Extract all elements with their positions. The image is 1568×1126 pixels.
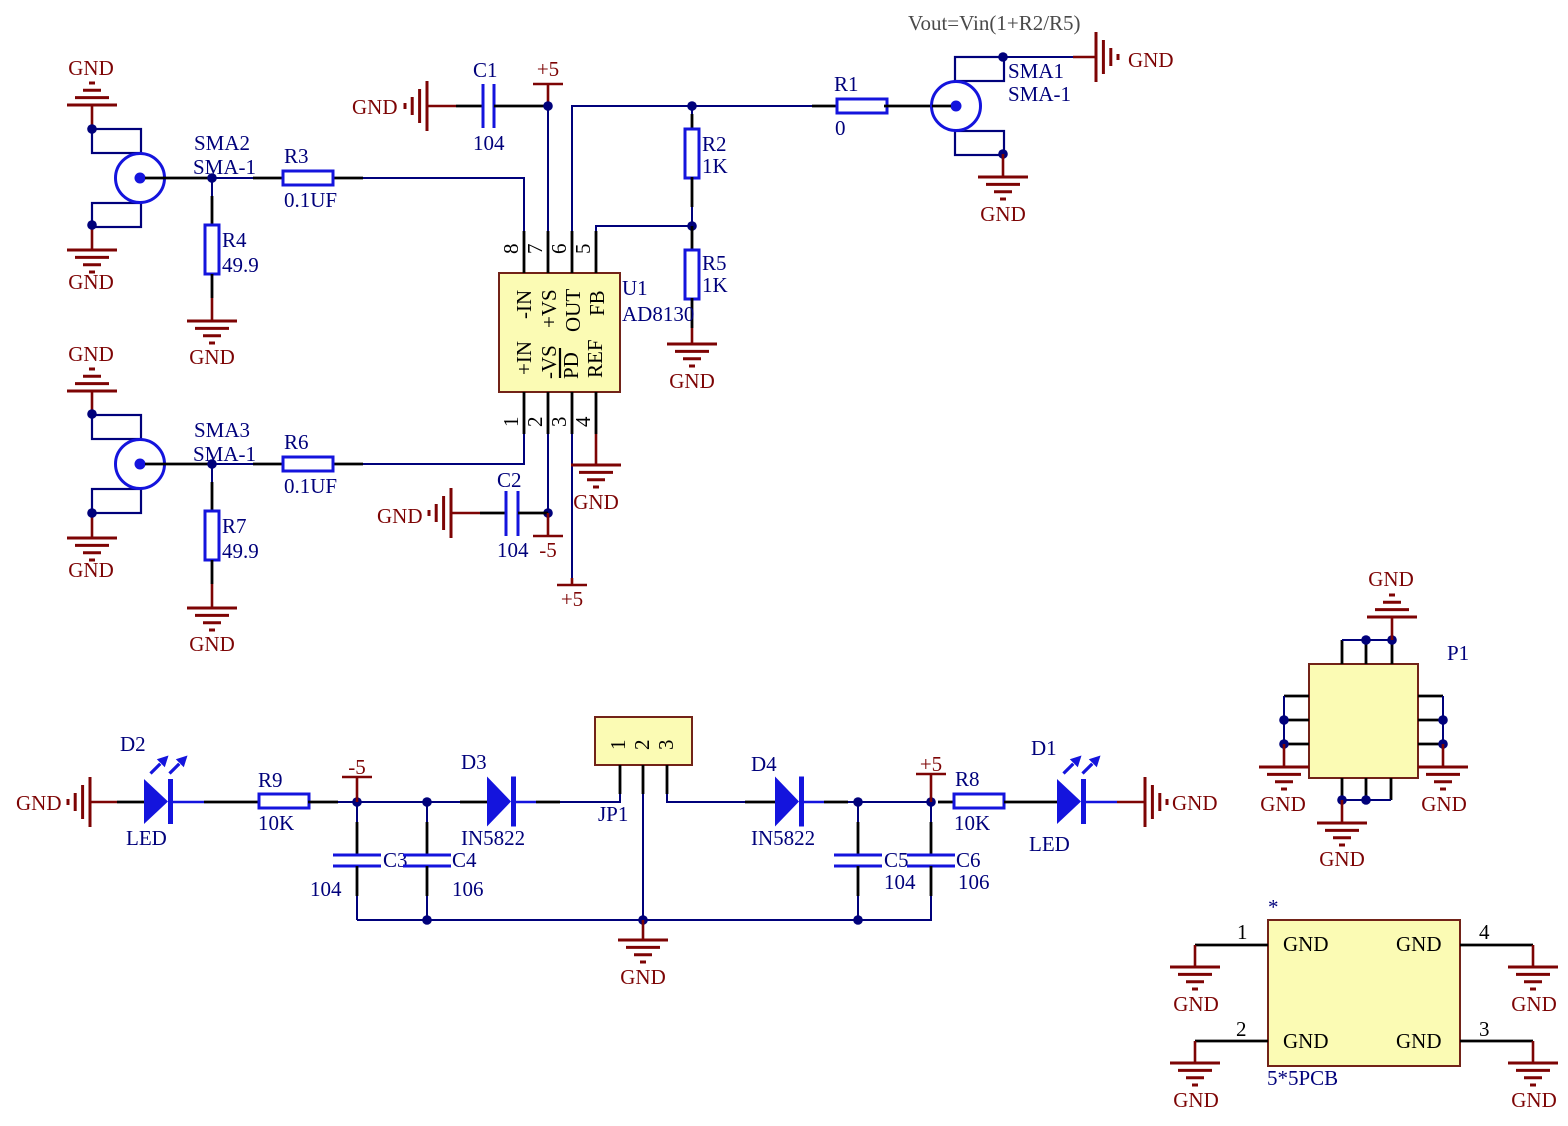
svg-text:U1: U1 [622, 276, 648, 300]
svg-text:SMA3: SMA3 [194, 418, 250, 442]
resistor R6 [253, 430, 363, 498]
svg-text:R6: R6 [284, 430, 309, 454]
svg-text:49.9: 49.9 [222, 253, 259, 277]
SMA connector SMA2 [92, 129, 256, 227]
ground GND at C1 [352, 81, 456, 131]
svg-text:106: 106 [452, 877, 484, 901]
svg-text:R9: R9 [258, 768, 283, 792]
wire FB net [596, 226, 692, 231]
svg-text:JP1: JP1 [598, 802, 628, 826]
PCB pin 1 [1195, 920, 1268, 945]
node SMA3 shell bottom [87, 508, 97, 518]
ground GND at PCB pin 2 [1170, 1041, 1220, 1112]
wire [212, 463, 253, 465]
node rail / JP1 pin2 [638, 915, 648, 925]
wire [1342, 799, 1391, 801]
wire [212, 177, 253, 179]
ground GND at C2 [377, 488, 480, 538]
svg-text:SMA1: SMA1 [1008, 59, 1064, 83]
svg-text:GND: GND [68, 342, 114, 366]
svg-text:C5: C5 [884, 848, 909, 872]
svg-text:106: 106 [958, 870, 990, 894]
svg-text:*: * [1268, 895, 1279, 919]
resistor R7 [205, 482, 259, 584]
ground GND below SMA1 [978, 154, 1028, 226]
ground GND above SMA2 shell [67, 56, 117, 129]
ground GND below rail [618, 920, 668, 989]
svg-text:C3: C3 [383, 848, 408, 872]
ground GND right of SMA1 [1073, 32, 1174, 82]
ground GND left of D2 [16, 777, 117, 827]
svg-text:Vout=Vin(1+R2/R5): Vout=Vin(1+R2/R5) [908, 11, 1081, 35]
P1 bottom pins [1342, 778, 1391, 800]
svg-text:GND: GND [669, 369, 715, 393]
wire [848, 801, 931, 803]
svg-text:D1: D1 [1031, 736, 1057, 760]
svg-text:GND: GND [377, 504, 423, 528]
node R2/R5 junction [687, 221, 697, 231]
PCB part 5*5PCB [1267, 895, 1460, 1090]
svg-text:-VS: -VS [537, 345, 561, 379]
wire [691, 207, 693, 226]
wire [667, 794, 745, 802]
U1 pin 2 [523, 392, 548, 434]
svg-text:GND: GND [1173, 1088, 1219, 1112]
ground GND right of D1 [1117, 777, 1218, 827]
P1 top pins [1342, 640, 1392, 664]
node -5 / C3 junction [352, 797, 362, 807]
node SMA1 shell top [998, 52, 1008, 62]
svg-text:+5: +5 [920, 752, 942, 776]
capacitor C2 [480, 468, 548, 562]
diode D3 [460, 750, 560, 850]
node SMA2 output [207, 173, 217, 183]
connector JP1 [595, 717, 692, 826]
op-amp U1 AD8130 [499, 273, 694, 392]
svg-text:P1: P1 [1447, 641, 1469, 665]
ground GND at PCB pin 3 [1508, 1041, 1558, 1112]
PCB pin 2 [1195, 1017, 1268, 1041]
svg-text:5*5PCB: 5*5PCB [1267, 1066, 1338, 1090]
svg-text:49.9: 49.9 [222, 539, 259, 563]
svg-text:REF: REF [583, 339, 607, 378]
svg-text:GND: GND [352, 95, 398, 119]
ground GND below R5 [667, 328, 717, 393]
diode D4 [745, 752, 848, 850]
svg-text:GND: GND [1128, 48, 1174, 72]
wire [560, 794, 620, 802]
svg-text:GND: GND [68, 270, 114, 294]
resistor R4 [205, 196, 259, 298]
SMA connector SMA1 [932, 57, 1072, 155]
svg-text:2: 2 [630, 740, 654, 751]
svg-text:GND: GND [16, 791, 62, 815]
wire [1003, 56, 1073, 58]
ground GND below R4 [187, 298, 237, 369]
capacitor C3 [310, 802, 408, 920]
node +5 / C1 junction [543, 101, 553, 111]
U1 pin 8 [499, 231, 524, 273]
svg-text:LED: LED [1029, 832, 1070, 856]
svg-text:GND: GND [1396, 932, 1442, 956]
power +5 above C6 [916, 752, 946, 802]
ground GND right of P1 [1418, 744, 1468, 816]
svg-text:+IN: +IN [512, 341, 536, 375]
wire [427, 801, 460, 803]
svg-text:OUT: OUT [561, 289, 585, 332]
wire [1442, 696, 1444, 744]
ground GND below P1 [1317, 800, 1367, 871]
wire [547, 434, 549, 513]
U1 pin name OUT [561, 289, 585, 332]
svg-text:R2: R2 [702, 132, 727, 156]
node [1438, 739, 1448, 749]
node [1337, 795, 1347, 805]
node +5 / C6 junction [926, 797, 936, 807]
ground GND above P1 [1367, 567, 1417, 640]
node SMA1 shell bottom [998, 149, 1008, 159]
ground GND below SMA3 shell [67, 513, 117, 582]
node SMA2 shell bottom [87, 220, 97, 230]
power -5 above C3 [342, 755, 372, 802]
svg-text:GND: GND [189, 345, 235, 369]
svg-text:GND: GND [1319, 847, 1365, 871]
LED D1 [1029, 736, 1117, 856]
node [1438, 715, 1448, 725]
svg-text:AD8130: AD8130 [622, 302, 694, 326]
svg-text:104: 104 [884, 870, 916, 894]
svg-text:R8: R8 [955, 767, 980, 791]
node [1361, 635, 1371, 645]
svg-text:GND: GND [1172, 791, 1218, 815]
svg-text:104: 104 [310, 877, 342, 901]
U1 pin name -IN [512, 290, 536, 319]
svg-text:GND: GND [1421, 792, 1467, 816]
svg-text:5: 5 [571, 244, 595, 255]
U1 pin 4 [571, 392, 596, 434]
svg-text:4: 4 [571, 416, 595, 427]
capacitor C5 [834, 802, 916, 920]
node C5 junction [853, 797, 863, 807]
P1 left pins [1284, 696, 1309, 744]
wire OUT net [572, 106, 812, 231]
svg-text:C2: C2 [497, 468, 522, 492]
wire [571, 434, 573, 578]
wire [1342, 639, 1392, 641]
svg-text:R1: R1 [834, 72, 859, 96]
svg-text:GND: GND [1368, 567, 1414, 591]
svg-text:SMA-1: SMA-1 [1008, 82, 1071, 106]
svg-text:PD: PD [559, 352, 583, 379]
PCB pin 4 [1460, 920, 1533, 945]
ground GND at PCB pin 4 [1508, 945, 1558, 1016]
svg-text:+VS: +VS [537, 289, 561, 328]
svg-text:0.1UF: 0.1UF [284, 188, 337, 212]
capacitor C4 [403, 802, 484, 920]
wire [1283, 696, 1285, 744]
P1 right pins [1418, 696, 1443, 744]
svg-text:FB: FB [585, 290, 609, 316]
svg-text:4: 4 [1479, 920, 1490, 944]
capacitor C6 [907, 802, 990, 896]
formula Vout [908, 11, 1081, 35]
svg-text:IN5822: IN5822 [461, 826, 525, 850]
PCB pin 3 [1460, 1017, 1533, 1041]
wire [211, 178, 213, 196]
ground GND at PCB pin 1 [1170, 945, 1220, 1016]
svg-text:6: 6 [547, 244, 571, 255]
wire [363, 434, 524, 464]
power +5 below U1 pin3 [557, 578, 587, 611]
svg-text:D2: D2 [120, 732, 146, 756]
svg-text:IN5822: IN5822 [751, 826, 815, 850]
U1 pin 3 [547, 392, 572, 434]
svg-text:104: 104 [473, 131, 505, 155]
U1 pin name +IN [512, 341, 536, 375]
wire [338, 801, 427, 803]
svg-text:R7: R7 [222, 514, 247, 538]
svg-text:3: 3 [547, 417, 571, 428]
svg-text:-5: -5 [539, 538, 557, 562]
node rail / C5 [853, 915, 863, 925]
svg-text:GND: GND [1283, 932, 1329, 956]
node rail / C4 [422, 915, 432, 925]
svg-text:GND: GND [1283, 1029, 1329, 1053]
node SMA2 shell top [87, 124, 97, 134]
svg-text:1: 1 [1237, 920, 1248, 944]
capacitor C1 [456, 58, 548, 155]
svg-text:D3: D3 [461, 750, 487, 774]
node R2 top [687, 101, 697, 111]
svg-text:GND: GND [68, 558, 114, 582]
svg-text:GND: GND [68, 56, 114, 80]
wire [211, 464, 213, 482]
svg-text:LED: LED [126, 826, 167, 850]
svg-text:8: 8 [499, 244, 523, 255]
svg-text:SMA-1: SMA-1 [193, 442, 256, 466]
svg-text:0: 0 [835, 116, 846, 140]
svg-text:1: 1 [606, 740, 630, 751]
U1 pin 5 [571, 231, 596, 273]
svg-text:0.1UF: 0.1UF [284, 474, 337, 498]
wire [547, 106, 549, 231]
resistor R2 [685, 106, 728, 207]
svg-text:+5: +5 [537, 57, 559, 81]
svg-text:3: 3 [1479, 1017, 1490, 1041]
svg-text:GND: GND [573, 490, 619, 514]
svg-text:2: 2 [1236, 1017, 1247, 1041]
svg-text:R5: R5 [702, 251, 727, 275]
svg-text:GND: GND [1396, 1029, 1442, 1053]
svg-text:104: 104 [497, 538, 529, 562]
ground GND left of P1 [1259, 744, 1309, 816]
svg-text:D4: D4 [751, 752, 777, 776]
U1 pin name -VS [537, 345, 561, 379]
resistor R1 [812, 72, 932, 140]
power -5 below C2 [533, 513, 563, 562]
SMA connector SMA3 [92, 415, 256, 513]
svg-text:GND: GND [189, 632, 235, 656]
wire bottom rail [357, 896, 931, 920]
LED D2 [117, 732, 259, 850]
svg-text:SMA-1: SMA-1 [193, 155, 256, 179]
svg-text:7: 7 [523, 244, 547, 255]
svg-text:10K: 10K [258, 811, 294, 835]
resistor R3 [253, 144, 363, 212]
power +5 above C1 [533, 57, 563, 106]
svg-text:GND: GND [1511, 992, 1557, 1016]
svg-text:-IN: -IN [512, 290, 536, 319]
ground GND below R7 [187, 584, 237, 656]
U1 pin name PD [559, 348, 583, 379]
svg-text:1K: 1K [702, 273, 728, 297]
svg-text:+5: +5 [561, 587, 583, 611]
svg-text:GND: GND [620, 965, 666, 989]
svg-text:1K: 1K [702, 154, 728, 178]
svg-text:C6: C6 [956, 848, 981, 872]
ground GND below SMA2 shell [67, 225, 117, 294]
wire [642, 794, 644, 920]
svg-text:GND: GND [1173, 992, 1219, 1016]
svg-text:C1: C1 [473, 58, 498, 82]
ground GND below U1 pin4 [571, 434, 621, 514]
wire [363, 178, 524, 231]
connector P1 [1309, 641, 1469, 778]
U1 pin name +VS [537, 289, 561, 328]
svg-text:C4: C4 [452, 848, 477, 872]
svg-text:10K: 10K [954, 811, 990, 835]
svg-text:R4: R4 [222, 228, 247, 252]
svg-text:GND: GND [1260, 792, 1306, 816]
node [1279, 715, 1289, 725]
svg-text:R3: R3 [284, 144, 309, 168]
node [1387, 635, 1397, 645]
U1 pin name FB [585, 290, 609, 316]
resistor R9 [258, 768, 338, 835]
svg-text:-5: -5 [348, 755, 366, 779]
node SMA3 output [207, 459, 217, 469]
node C4 junction [422, 797, 432, 807]
svg-text:2: 2 [523, 417, 547, 428]
svg-text:GND: GND [1511, 1088, 1557, 1112]
U1 pin 7 [523, 231, 548, 273]
node [1279, 739, 1289, 749]
U1 pin name REF [583, 339, 607, 378]
resistor R5 [685, 226, 728, 328]
svg-text:GND: GND [980, 202, 1026, 226]
svg-text:SMA2: SMA2 [194, 131, 250, 155]
node [1361, 795, 1371, 805]
svg-text:3: 3 [654, 740, 678, 751]
ground GND above SMA3 shell [67, 342, 117, 414]
svg-text:1: 1 [499, 417, 523, 428]
U1 pin 6 [547, 231, 572, 273]
node SMA3 shell top [87, 409, 97, 419]
resistor R8 [938, 767, 1030, 835]
U1 pin 1 [499, 392, 524, 434]
node C2 junction [543, 508, 553, 518]
